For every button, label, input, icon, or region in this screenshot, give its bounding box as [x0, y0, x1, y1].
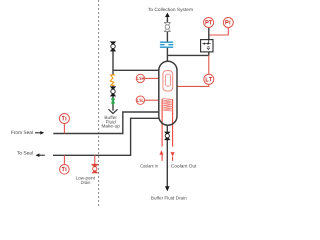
svg-text:Drain: Drain — [81, 180, 91, 185]
svg-text:Make-up: Make-up — [101, 124, 120, 129]
svg-text:Buffer Fluid Drain: Buffer Fluid Drain — [151, 195, 187, 200]
svg-text:Coolant Out: Coolant Out — [171, 164, 197, 169]
svg-text:Coolant In: Coolant In — [140, 164, 158, 169]
svg-text:To Collection System: To Collection System — [148, 7, 193, 12]
svg-text:From Seal: From Seal — [11, 130, 33, 136]
svg-text:To Seal: To Seal — [17, 150, 33, 156]
